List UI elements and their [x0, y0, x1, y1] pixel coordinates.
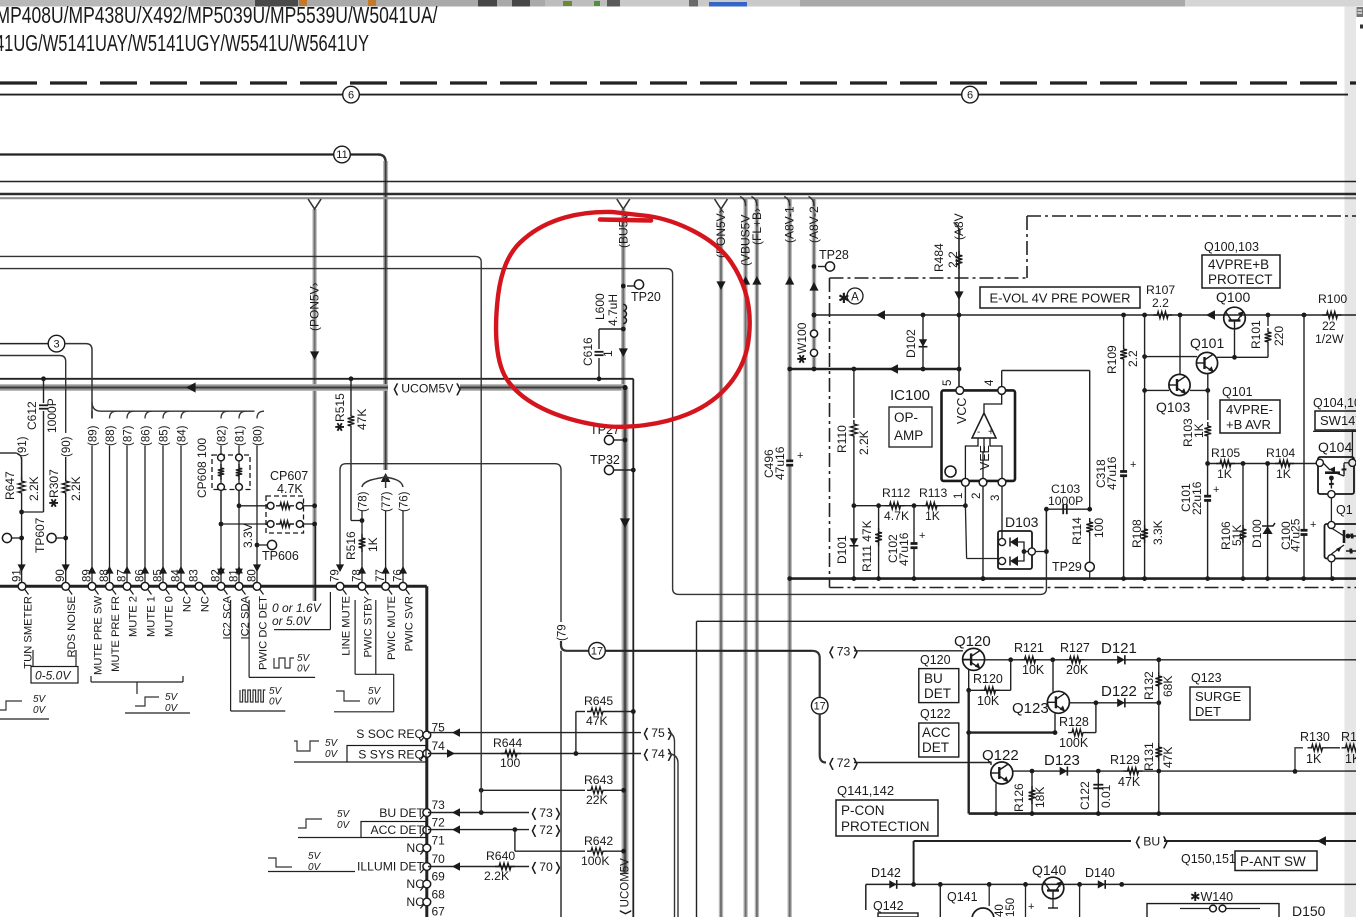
wire Q123 emitter down — [1054, 713, 1056, 733]
wire SW14V to Q104 — [1351, 430, 1353, 459]
test point TP28 — [812, 264, 817, 269]
svg-text:DET: DET — [924, 686, 951, 701]
node 3 — [48, 335, 65, 352]
node R645 ucom — [631, 709, 636, 714]
svg-text:S SYS REQ: S SYS REQ — [358, 748, 424, 762]
node rail — [1121, 576, 1126, 581]
svg-text:D103: D103 — [1005, 514, 1039, 530]
resistor R103 — [1207, 390, 1209, 420]
arrow FL+B up — [752, 276, 761, 285]
wire 91 feed — [0, 453, 22, 480]
arrow pin78 up — [358, 566, 366, 574]
svg-text:ILLUMI DET: ILLUMI DET — [357, 860, 425, 874]
wire pin1 to D103 — [965, 506, 966, 559]
svg-text:(FL+B›: (FL+B› — [750, 208, 764, 245]
pin 68 — [423, 898, 431, 906]
svg-text:MUTE 1: MUTE 1 — [146, 596, 158, 637]
net tap A8V hook — [954, 223, 960, 233]
node rail R101 — [1266, 313, 1271, 318]
diode D140 — [1098, 880, 1105, 889]
svg-text:R111 47K: R111 47K — [860, 520, 874, 572]
svg-text:85: 85 — [153, 569, 165, 582]
wire Q101 emitter down — [1207, 374, 1209, 391]
waveform step illumi — [268, 858, 292, 867]
pin 73 — [423, 809, 431, 817]
wire 17 down to 72 — [820, 714, 826, 763]
svg-text:(89): (89) — [88, 425, 100, 446]
svg-text:20K: 20K — [1066, 663, 1089, 677]
resistor R129 — [1124, 768, 1143, 775]
right panel — [1356, 7, 1363, 918]
arrow pin up — [141, 566, 149, 574]
arrow VBUS5V up — [741, 276, 750, 285]
svg-text:1/2W: 1/2W — [1315, 332, 1344, 346]
svg-text:SURGE: SURGE — [1195, 689, 1242, 704]
svg-text:R647: R647 — [3, 471, 17, 500]
wire PON5V drop — [719, 209, 723, 917]
wire pin79 loop — [340, 464, 561, 622]
node rail — [1265, 576, 1270, 581]
diode D123 — [1060, 767, 1068, 776]
svg-text:47K: 47K — [1118, 775, 1141, 789]
pin 70 — [423, 863, 431, 871]
svg-text:(91): (91) — [17, 436, 29, 457]
svg-text:NC: NC — [406, 841, 424, 855]
wire 75 curve down — [668, 733, 675, 917]
svg-text:(85): (85) — [159, 425, 171, 446]
wire Q101 row — [1145, 356, 1197, 358]
resistor R108 — [1141, 525, 1148, 543]
pin 4 IC100 — [998, 387, 1006, 395]
svg-text:5V: 5V — [308, 851, 322, 862]
node R112 left — [852, 503, 857, 508]
node rail — [852, 576, 857, 581]
svg-text:+: + — [988, 427, 994, 438]
svg-text:47u16: 47u16 — [897, 532, 911, 566]
node D122 right — [1156, 700, 1161, 705]
wire column 87 — [127, 411, 134, 418]
wire D123 row — [1032, 770, 1356, 772]
wire Q122 emitter right — [1013, 770, 1032, 772]
wire 1144 column — [1144, 315, 1146, 579]
svg-text:Q103: Q103 — [1156, 399, 1190, 415]
arrow pin73 in — [452, 808, 460, 817]
IC top edge — [0, 585, 427, 588]
transistor Q141 partial — [972, 908, 994, 922]
node R105 left — [1205, 461, 1210, 466]
svg-text:79: 79 — [330, 569, 342, 582]
svg-text:(87): (87) — [123, 425, 135, 446]
wire BU right — [1164, 840, 1356, 842]
svg-text:LINE MUTE: LINE MUTE — [341, 596, 353, 656]
wire column 88 — [110, 411, 117, 418]
arrow y369 left — [889, 364, 898, 374]
svg-text:220: 220 — [1272, 326, 1286, 346]
label SW14V box — [1315, 411, 1363, 430]
svg-text:R484: R484 — [932, 243, 946, 272]
node L600 bottom — [621, 327, 626, 332]
svg-text:90: 90 — [55, 569, 67, 582]
node Q103 row left — [1142, 388, 1147, 393]
label OP-AMP box — [889, 407, 932, 447]
wire A8V drop — [958, 228, 960, 390]
arrow pin79 down — [336, 564, 344, 572]
wire column 80 — [257, 411, 264, 418]
svg-text:100: 100 — [500, 756, 521, 770]
svg-text:❬UCOM5V❭: ❬UCOM5V❭ — [391, 381, 464, 395]
pin 78 — [358, 582, 366, 590]
svg-text:4VPRE-: 4VPRE- — [1226, 402, 1273, 417]
node C122 top — [1096, 769, 1101, 774]
resistor R126 — [1031, 771, 1033, 814]
svg-text:47u25: 47u25 — [1289, 518, 1303, 552]
diode D142 — [889, 880, 896, 889]
svg-text:78: 78 — [352, 569, 364, 582]
wire D103 right — [1035, 551, 1046, 553]
node A8V2 y369 — [812, 367, 817, 372]
wire column 86 — [145, 411, 152, 418]
node R121 left — [1008, 657, 1013, 662]
svg-text:R107: R107 — [1146, 283, 1175, 297]
node CP608 b — [237, 503, 242, 508]
wire Q141 stub — [939, 884, 941, 917]
svg-text:150: 150 — [1005, 898, 1017, 917]
label UCOM5V — [388, 380, 460, 395]
wire 11-line — [0, 153, 334, 155]
svg-text:D102: D102 — [904, 329, 918, 358]
svg-text:(PON5V›: (PON5V› — [308, 282, 322, 331]
wire 561 vertical down — [560, 651, 562, 917]
svg-text:✱W140: ✱W140 — [1190, 890, 1233, 904]
svg-text:68: 68 — [432, 888, 446, 902]
diode D102 — [922, 315, 924, 369]
wire A8V-2 drop — [812, 199, 816, 369]
wire 89 down — [91, 446, 93, 587]
svg-text:81: 81 — [229, 569, 241, 582]
arrow rail left — [1206, 310, 1215, 320]
svg-text:(84): (84) — [177, 425, 189, 446]
label 4VPRE+B PROTECT box — [1202, 255, 1280, 288]
node R113 left — [912, 503, 917, 508]
svg-text:4.7uH: 4.7uH — [606, 294, 620, 326]
wire CP608 to CP607 — [239, 505, 267, 507]
resistor R120 — [969, 689, 1011, 691]
svg-text:0V: 0V — [325, 749, 339, 760]
capacitor C100 — [1303, 315, 1305, 579]
svg-text:A: A — [851, 292, 859, 304]
red annotation ellipse — [496, 212, 750, 427]
node Q103 right — [1205, 388, 1210, 393]
diode D101 — [853, 506, 855, 579]
node R130 — [1293, 769, 1298, 774]
node Q141 top — [938, 882, 943, 887]
pin 81 — [235, 582, 243, 590]
svg-text:+: + — [1213, 484, 1219, 496]
transistor Q123 — [1047, 691, 1069, 713]
svg-text:DET: DET — [922, 740, 949, 755]
pin 1 IC100 — [962, 478, 970, 486]
merge arrow net 11 — [381, 473, 391, 482]
capacitor C616 — [595, 352, 604, 355]
node 6 left — [343, 86, 360, 103]
transistor Q142 partial — [878, 913, 918, 917]
capacitor C122 — [1097, 771, 1099, 814]
svg-text:C122: C122 — [1078, 781, 1092, 810]
pin 74 — [423, 750, 431, 758]
svg-text:5V: 5V — [33, 694, 47, 705]
resistor R104 — [1275, 460, 1294, 467]
arrow pin up — [123, 566, 131, 574]
resistor R645 — [575, 712, 577, 754]
svg-text:TP20: TP20 — [631, 290, 661, 304]
node rail — [1241, 576, 1246, 581]
svg-text:OP-: OP- — [894, 410, 918, 425]
pin 83 — [195, 582, 203, 590]
wire pin73 — [428, 812, 529, 814]
arrow pin up — [88, 566, 96, 574]
diode D121 — [1117, 655, 1125, 664]
svg-text:R121: R121 — [1014, 641, 1044, 655]
wire Q105 down — [1330, 562, 1332, 579]
svg-text:D121: D121 — [1101, 640, 1137, 657]
svg-text:Q141,142: Q141,142 — [837, 783, 894, 798]
svg-text:68K: 68K — [1161, 676, 1175, 697]
node UCOM5V corner — [622, 385, 627, 390]
net tap PON5V left arrowhead — [308, 199, 321, 209]
svg-text:PWIC SVR: PWIC SVR — [404, 596, 416, 651]
svg-text:R109: R109 — [1105, 345, 1119, 374]
node D122 left — [1094, 700, 1099, 705]
arrow pin double — [235, 566, 243, 573]
svg-text:100: 100 — [1092, 518, 1106, 538]
resistor R113 — [922, 502, 941, 509]
wire 80 down — [256, 446, 258, 587]
arrow BU5V down — [619, 348, 628, 357]
waveform step stby — [336, 691, 360, 701]
arrow pin74 out — [447, 749, 455, 758]
svg-text:+: + — [797, 450, 803, 462]
wire y256 to 482 vertical — [0, 256, 481, 812]
svg-text:❬72❭: ❬72❭ — [529, 823, 563, 837]
svg-text:MUTE 2: MUTE 2 — [128, 596, 140, 637]
pin 71 — [423, 844, 431, 852]
svg-text:PWIC MUTE: PWIC MUTE — [386, 596, 398, 660]
svg-text:NC: NC — [182, 596, 194, 612]
wire 86 down — [144, 446, 146, 587]
svg-text:Q101: Q101 — [1190, 335, 1224, 351]
node R642 ucom — [621, 849, 626, 854]
svg-text:(82): (82) — [217, 425, 229, 446]
svg-text:(76): (76) — [399, 491, 411, 512]
resistor R515 — [350, 379, 352, 412]
svg-text:R110: R110 — [835, 425, 849, 453]
wire y619 row — [697, 620, 1357, 622]
wire Q122 base down — [995, 784, 997, 814]
wire 17 horizontal — [605, 650, 812, 652]
node C141 top — [987, 882, 992, 887]
svg-text:+: + — [1310, 519, 1316, 531]
node rail Q103col — [1178, 313, 1183, 318]
svg-text:(78): (78) — [358, 491, 370, 512]
arrow pin up — [159, 566, 167, 574]
node C616 rail — [597, 376, 602, 381]
wire 88 down — [109, 446, 111, 587]
svg-text:80: 80 — [247, 569, 259, 582]
svg-text:5V: 5V — [368, 686, 382, 697]
node R110 y369 — [852, 367, 857, 372]
wire node3 to fan — [65, 344, 92, 419]
svg-text:NC: NC — [406, 877, 424, 891]
svg-text:TP607: TP607 — [33, 517, 47, 553]
svg-text:(A8V-2: (A8V-2 — [807, 206, 821, 243]
arrow pin up — [177, 566, 185, 574]
wire Q140 stub — [1052, 899, 1054, 908]
resistor R131b — [1342, 744, 1361, 751]
wire column 81 — [239, 411, 246, 418]
resistor R484 — [956, 251, 963, 269]
diode D122 — [1117, 698, 1125, 707]
wire 73 to Q120 — [854, 650, 963, 652]
node rail A8V1 — [787, 576, 792, 581]
svg-text:D122: D122 — [1101, 683, 1137, 700]
svg-text:(77): (77) — [381, 491, 393, 512]
svg-text:Q120: Q120 — [920, 653, 951, 667]
digital transistor Q104 — [1318, 457, 1354, 494]
svg-text:1K: 1K — [1192, 423, 1206, 438]
pin 86 — [141, 582, 149, 590]
pin 75 — [423, 731, 431, 739]
svg-text:Q120: Q120 — [954, 633, 991, 650]
wire pin4 up — [1001, 371, 1003, 387]
transistor Q103 — [1169, 374, 1190, 395]
svg-text:88: 88 — [99, 569, 111, 582]
resistor R101 — [1267, 315, 1269, 326]
arrow pin91 — [18, 564, 26, 572]
wire 78 down — [361, 511, 363, 586]
wire 17 corner down — [812, 651, 820, 697]
svg-text:+: + — [1028, 901, 1034, 913]
svg-text:❬70❭: ❬70❭ — [529, 860, 563, 874]
wire Q100 base — [1234, 329, 1236, 358]
arrow pin90 — [62, 564, 70, 572]
svg-text:0-5.0V: 0-5.0V — [35, 669, 71, 683]
callout mute bracket — [90, 676, 92, 682]
wire heavy y369 — [790, 368, 959, 371]
resistor R128 — [1068, 729, 1087, 736]
node D100 top — [1265, 461, 1270, 466]
dash-dot boundary horizontal — [830, 277, 1028, 279]
svg-text:3.3K: 3.3K — [1151, 520, 1165, 545]
arrow pin76 up — [399, 566, 407, 574]
svg-text:83: 83 — [189, 569, 201, 582]
IC100 index dot — [945, 466, 956, 477]
svg-text:R100: R100 — [1318, 292, 1347, 306]
svg-text:Q101: Q101 — [1222, 385, 1253, 399]
node pin2 rail — [981, 576, 986, 581]
svg-text:R516: R516 — [344, 531, 358, 560]
node A8V y369 — [957, 367, 962, 372]
dashed section divider — [0, 81, 1363, 84]
node cap top — [1023, 882, 1028, 887]
svg-text:CP608 100: CP608 100 — [195, 438, 209, 498]
svg-text:PWIC DC DET: PWIC DC DET — [258, 596, 270, 670]
browser toolbar strip — [0, 0, 1363, 7]
scrollbar strip — [1345, 7, 1357, 918]
test point TP20 — [634, 280, 643, 289]
arrow pin80 down — [253, 564, 261, 572]
svg-text:MUTE PRE FR: MUTE PRE FR — [110, 596, 122, 672]
svg-text:0V: 0V — [269, 697, 283, 708]
node Q123 bottom row — [966, 730, 971, 735]
resistor R111 — [878, 506, 880, 579]
node rail R109 — [1121, 313, 1126, 318]
svg-text:Q141: Q141 — [947, 890, 978, 904]
wire C616 branch — [599, 328, 623, 330]
red annotation tail — [600, 220, 651, 221]
svg-text:5V: 5V — [269, 686, 283, 697]
svg-text:67: 67 — [432, 905, 446, 918]
svg-text:74: 74 — [432, 739, 446, 753]
node R120 left — [966, 688, 971, 693]
svg-text:2.2K: 2.2K — [69, 476, 83, 501]
svg-text:91: 91 — [12, 569, 24, 582]
svg-text:PROTECT: PROTECT — [1208, 272, 1273, 287]
resistor R114 — [1086, 518, 1093, 536]
wire 85 down — [162, 446, 164, 587]
svg-text:D142: D142 — [871, 866, 901, 880]
node BU col row — [911, 882, 916, 887]
pin 89 — [88, 582, 96, 590]
wire dark rail y379 — [0, 378, 633, 380]
svg-text:77: 77 — [375, 569, 387, 582]
node R647 C612 — [19, 510, 24, 515]
wire column 84 — [181, 411, 188, 418]
op-amp wiring — [984, 394, 1002, 413]
svg-text:4.7K: 4.7K — [277, 482, 303, 496]
pin 88 — [106, 582, 114, 590]
resistor R131 — [1155, 743, 1162, 761]
waveform step mute — [135, 697, 159, 706]
wire pin72 — [428, 829, 529, 831]
resistor R110 — [853, 369, 855, 418]
svg-text:NC: NC — [406, 895, 424, 909]
resistor R112 — [886, 502, 905, 509]
label P-CON PROTECTION box — [836, 800, 938, 836]
node R112 R111 — [876, 503, 881, 508]
wire Q103 row — [1145, 389, 1169, 391]
wire 81 down — [238, 446, 240, 587]
svg-text:D123: D123 — [1044, 752, 1080, 769]
callout 0-5.0V box — [31, 667, 78, 684]
svg-text:0V: 0V — [297, 664, 311, 675]
label P-ANT SW box — [1235, 851, 1317, 871]
dash-dot boundary vertical right — [1026, 216, 1028, 278]
svg-text:ACC DET: ACC DET — [371, 823, 425, 837]
svg-text:PROTECTION: PROTECTION — [841, 819, 930, 834]
node D140 right — [1119, 882, 1124, 887]
svg-text:D140: D140 — [1085, 866, 1115, 880]
wire D122 row — [1069, 702, 1158, 704]
wire pin2 down — [982, 486, 984, 578]
arrow UCOM5V down — [620, 518, 630, 528]
svg-text:Q122: Q122 — [920, 707, 951, 721]
net tap BU5V arrowhead — [617, 199, 630, 209]
inductor L600 — [623, 304, 626, 323]
svg-text:Q122: Q122 — [982, 747, 1019, 764]
arrow A8V-1 up — [785, 276, 794, 285]
arrow pin up — [105, 566, 113, 574]
callout PWIC STBY MUTE leader — [354, 600, 356, 674]
